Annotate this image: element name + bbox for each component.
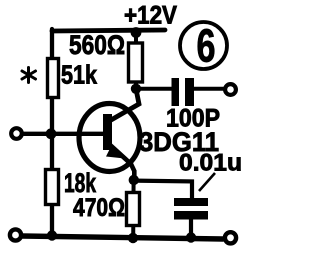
resistor 470 ohm (127, 193, 140, 226)
wire 100P coupling left segment (136, 87, 172, 91)
node: base junction dot (46, 128, 57, 139)
capacitor 0.01u (bypass) (174, 198, 208, 220)
terminal: bottom right (225, 232, 236, 243)
wire emitter bypass branch horizontal (134, 181, 192, 199)
svg-text:51k: 51k (61, 60, 97, 90)
resistor 18k (46, 170, 59, 205)
terminal: bottom left (10, 229, 21, 240)
figure number badge circle 6 (180, 20, 227, 72)
node: bottom rail dot at bypass cap (186, 232, 196, 242)
wire left vertical column (51k / 18k branch) (50, 29, 54, 237)
wire bottom rail (22, 236, 223, 239)
node: bottom rail dot at 470 ohm (128, 233, 138, 243)
resistor 560 ohm (129, 43, 143, 82)
svg-text:+12V: +12V (124, 2, 177, 30)
node: +12V junction dot (131, 27, 142, 38)
wire collector lead into transistor (111, 89, 139, 120)
wire top rail from R 51k top to +12V node (52, 30, 165, 31)
node: emitter junction dot (129, 175, 139, 185)
wire 560 ohm branch vertical (134, 31, 138, 88)
svg-text:6: 6 (197, 20, 216, 72)
wire emitter to 470 ohm (131, 180, 135, 238)
svg-text:0.01u: 0.01u (179, 149, 242, 176)
wire 100P coupling right segment to output terminal (194, 87, 224, 91)
terminal: output (right of 100P) (225, 84, 236, 95)
wire bypass cap to bottom rail (189, 218, 193, 238)
svg-text:470Ω: 470Ω (73, 194, 125, 222)
wire emitter lead (109, 144, 134, 180)
pointer line from 0.01u label to capacitor (199, 173, 215, 191)
transistor Q1 3DG11 (79, 104, 140, 172)
svg-text:560Ω: 560Ω (69, 30, 125, 60)
wire base lead (22, 132, 104, 136)
node: collector junction dot (131, 84, 141, 94)
terminal: input (left) (11, 128, 22, 139)
asterisk mark for 51k (22, 68, 36, 83)
resistor 51k (starred) (48, 59, 59, 98)
node: bottom rail dot at 18k (47, 230, 57, 240)
capacitor 100P (coupling) (172, 78, 195, 106)
